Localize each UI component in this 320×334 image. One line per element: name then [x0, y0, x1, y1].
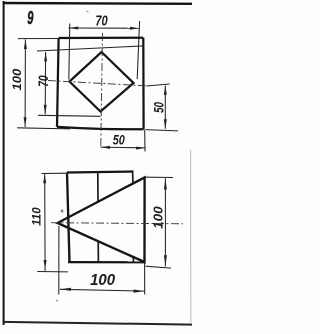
right faint border line: [190, 150, 192, 323]
top border line: [3, 2, 192, 5]
horizontal centerline lower view: [51, 223, 183, 224]
vertical centerline: [101, 33, 103, 147]
dim 100 right lower: dimension line: [164, 178, 166, 266]
dim 100 right lower: extension lines: [146, 176, 173, 178]
dim 50 right: extension lines: [147, 84, 170, 86]
svg-text:50: 50: [113, 131, 125, 147]
dim 100 bottom: dimension line: [60, 289, 145, 291]
dim 110 left: dimension line: [44, 174, 46, 271]
svg-text:100: 100: [10, 69, 24, 91]
dim 70 top: dimension line: [69, 27, 140, 29]
svg-text:70: 70: [95, 12, 108, 29]
dim 100 left: dimension line: [24, 40, 26, 128]
dim 100 left: extension lines: [18, 38, 58, 40]
dim 50 bottom: dimension line: [100, 146, 145, 149]
triangle (cut face): [58, 177, 145, 262]
dim 100 bottom: extension lines: [58, 226, 60, 295]
svg-text:110: 110: [29, 207, 43, 225]
svg-text:70: 70: [36, 75, 51, 87]
horizontal centerline: [48, 81, 147, 86]
lower view: prism rectangle: [67, 172, 134, 173]
rect right edge (visible segments): [132, 172, 134, 185]
small specks: [56, 300, 58, 302]
internal edge line (visible segments): [97, 172, 99, 203]
dim 50 right: dimension line: [164, 86, 166, 129]
bottom border line: [3, 322, 192, 325]
svg-text:100: 100: [151, 206, 166, 229]
dim 50 bottom: right extension line: [144, 130, 146, 152]
square outline (front view): [59, 37, 144, 40]
svg-text:9: 9: [27, 7, 34, 28]
svg-text:50: 50: [150, 102, 166, 113]
dim 110 left: extension lines: [42, 172, 68, 174]
dim 70 left inner: dimension line: [44, 52, 46, 114]
diamond (rotated square): [70, 52, 134, 112]
svg-text:100: 100: [90, 272, 115, 289]
dim 70 top: extension lines: [69, 24, 70, 80]
stray mark near apex: [61, 210, 64, 213]
dim 70 left inner: extension lines: [37, 46, 144, 51]
left border line: [3, 1, 5, 325]
